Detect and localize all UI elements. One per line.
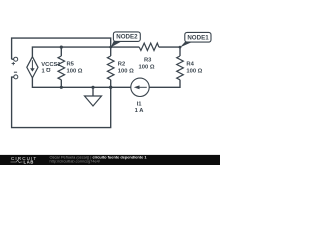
svg-text:100 Ω: 100 Ω [139, 64, 155, 70]
svg-text:1 A: 1 A [135, 108, 145, 114]
svg-text:NODE1: NODE1 [187, 34, 209, 41]
svg-text:NODE2: NODE2 [116, 34, 138, 41]
svg-text:100 Ω: 100 Ω [186, 69, 202, 75]
svg-text:I1: I1 [137, 102, 143, 108]
svg-text:R2: R2 [118, 61, 125, 67]
svg-text:http://circuitlab.com/csg74e4/: http://circuitlab.com/csg74e4/ [50, 159, 101, 164]
svg-text:Ω: Ω [46, 66, 51, 72]
svg-text:R3: R3 [144, 58, 152, 64]
svg-text:LAB: LAB [24, 160, 35, 165]
svg-text:R5: R5 [67, 62, 75, 68]
svg-text:100 Ω: 100 Ω [118, 68, 134, 74]
svg-text:100 Ω: 100 Ω [67, 69, 83, 75]
svg-text:R4: R4 [186, 62, 194, 68]
